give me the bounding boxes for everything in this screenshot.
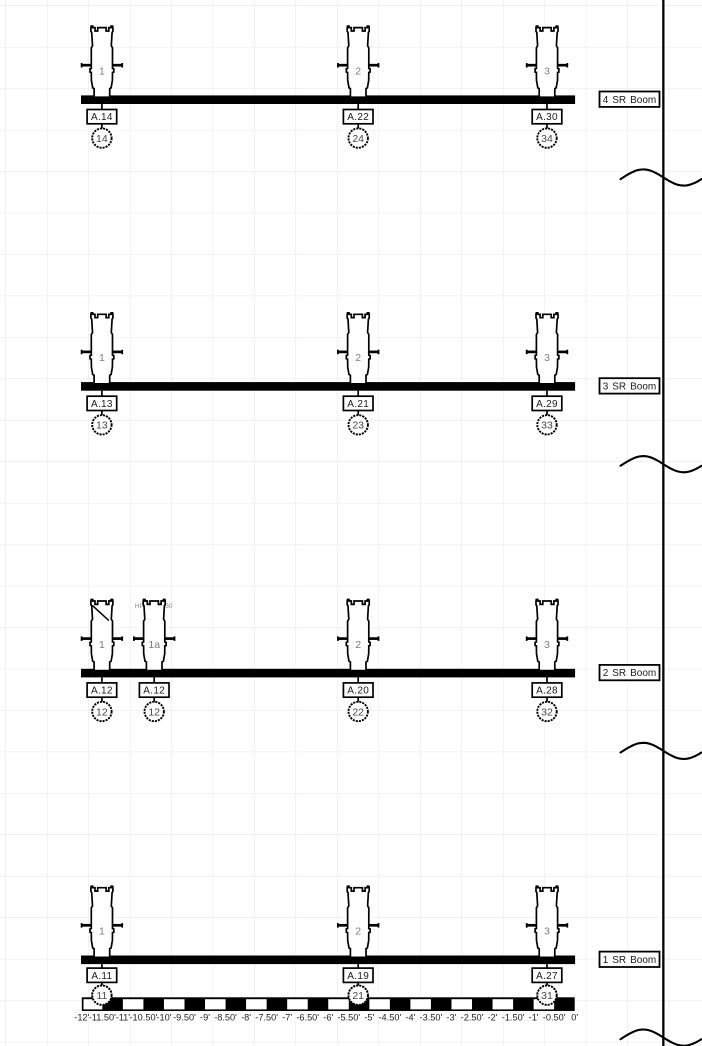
svg-text:-8': -8'	[241, 1012, 251, 1022]
svg-text:-7.50': -7.50'	[255, 1012, 278, 1022]
svg-text:-5.50': -5.50'	[337, 1012, 360, 1022]
lighting fixture 1 on 3 SR Boom	[81, 313, 123, 384]
svg-text:A.20: A.20	[347, 686, 369, 697]
svg-text:3: 3	[544, 926, 550, 938]
wire pipe to dimmer box	[546, 104, 548, 110]
channel circle 32	[537, 702, 556, 721]
wire pipe to dimmer box	[357, 964, 359, 968]
wire dimmer box to channel circle	[357, 124, 359, 138]
lighting fixture 2 on 2 SR Boom	[337, 600, 379, 671]
channel circle 11 (over ruler)	[92, 986, 111, 1005]
svg-text:14: 14	[96, 133, 108, 145]
svg-text:A.22: A.22	[347, 112, 369, 123]
svg-text:13: 13	[96, 420, 108, 432]
wire pipe to dimmer box	[101, 391, 103, 397]
svg-text:12: 12	[148, 706, 160, 718]
wire dimmer box to channel circle	[546, 411, 548, 425]
wire pipe to dimmer box	[546, 677, 548, 683]
svg-text:-4': -4'	[405, 1012, 415, 1022]
channel circle 24	[349, 128, 368, 147]
wire pipe to dimmer box	[546, 964, 548, 968]
channel circle 31 (over ruler)	[537, 986, 556, 1005]
svg-text:3: 3	[544, 66, 550, 78]
channel circle 22	[349, 702, 368, 721]
channel circle 14	[92, 128, 111, 147]
lighting fixture 3 on 2 SR Boom	[526, 600, 568, 671]
dimmer box A.19	[343, 968, 373, 982]
dimmer box A.13	[87, 396, 117, 410]
svg-text:A.12: A.12	[143, 686, 165, 697]
break line squiggle 3	[621, 743, 702, 759]
lighting fixture 3 on 3 SR Boom	[526, 313, 568, 384]
dimmer box A.30	[532, 110, 562, 124]
boom name label 4 SR Boom	[600, 92, 660, 107]
svg-text:-3': -3'	[447, 1012, 457, 1022]
wire dimmer box to channel circle	[101, 697, 103, 711]
svg-text:24: 24	[352, 133, 364, 145]
svg-text:A.21: A.21	[347, 399, 369, 410]
svg-text:12: 12	[96, 706, 108, 718]
wire dimmer box to channel circle	[101, 411, 103, 425]
wire pipe to dimmer box	[101, 677, 103, 683]
wire pipe to dimmer box	[153, 677, 155, 683]
wire dimmer box to channel circle	[101, 124, 103, 138]
lighting fixture 1a on 2 SR Boom	[133, 600, 175, 671]
wire pipe to dimmer box	[357, 677, 359, 683]
svg-text:-1.50': -1.50'	[502, 1012, 525, 1022]
svg-text:-10': -10'	[156, 1012, 171, 1022]
dimmer box A.27	[532, 968, 562, 982]
svg-text:A.14: A.14	[91, 112, 113, 123]
lighting fixture 1 on 4 SR Boom	[81, 26, 123, 97]
svg-text:32: 32	[541, 706, 553, 718]
svg-text:2: 2	[355, 639, 361, 651]
lighting fixture 2 on 1 SR Boom	[337, 886, 379, 957]
dimmer box A.11	[87, 968, 117, 982]
scale bar (checkered ruler)	[82, 997, 575, 1011]
svg-text:2 SR Boom: 2 SR Boom	[603, 668, 657, 679]
wire pipe to dimmer box	[101, 964, 103, 968]
svg-text:A.11: A.11	[91, 971, 112, 982]
svg-text:31: 31	[541, 990, 553, 1002]
boom pipe 3 SR Boom	[81, 382, 575, 391]
svg-text:-0.50': -0.50'	[543, 1012, 566, 1022]
dimmer box A.29	[532, 396, 562, 410]
boom name label 1 SR Boom	[600, 952, 660, 967]
dimmer box A.12	[87, 683, 117, 697]
channel circle 21 (over ruler)	[349, 986, 368, 1005]
svg-text:11: 11	[96, 990, 107, 1002]
svg-text:33: 33	[541, 420, 553, 432]
lighting fixture 3 on 4 SR Boom	[526, 26, 568, 97]
svg-text:A.13: A.13	[91, 399, 113, 410]
lighting fixture 2 on 3 SR Boom	[337, 313, 379, 384]
svg-text:-9.50': -9.50'	[173, 1012, 196, 1022]
dimmer box A.20	[343, 683, 373, 697]
svg-text:-2.50': -2.50'	[461, 1012, 484, 1022]
svg-text:3 SR Boom: 3 SR Boom	[603, 382, 657, 393]
svg-text:23: 23	[352, 420, 364, 432]
svg-text:1: 1	[99, 639, 105, 651]
svg-text:A.12: A.12	[91, 686, 113, 697]
svg-text:-10.50': -10.50'	[130, 1012, 158, 1022]
svg-text:-2': -2'	[488, 1012, 498, 1022]
svg-text:-6': -6'	[323, 1012, 333, 1022]
lighting fixture 1 on 2 SR Boom	[81, 600, 123, 671]
svg-text:3: 3	[544, 352, 550, 364]
svg-text:21: 21	[352, 990, 364, 1002]
wire pipe to dimmer box	[357, 104, 359, 110]
wire dimmer box to channel circle	[357, 982, 359, 995]
wire pipe to dimmer box	[357, 391, 359, 397]
svg-text:0': 0'	[571, 1012, 578, 1022]
svg-text:22: 22	[352, 706, 364, 718]
break line squiggle 4	[621, 1030, 702, 1046]
wire dimmer box to channel circle	[546, 982, 548, 995]
svg-text:1: 1	[99, 352, 105, 364]
svg-text:A.19: A.19	[347, 971, 369, 982]
svg-text:2: 2	[355, 66, 361, 78]
boom name label 3 SR Boom	[600, 378, 660, 393]
channel circle 12	[145, 702, 164, 721]
svg-text:-3.50': -3.50'	[420, 1012, 443, 1022]
channel circle 33	[537, 415, 556, 434]
svg-text:-8.50': -8.50'	[214, 1012, 237, 1022]
svg-text:2: 2	[355, 352, 361, 364]
svg-text:A.28: A.28	[536, 686, 558, 697]
boom name label 2 SR Boom	[600, 665, 660, 680]
wire dimmer box to channel circle	[546, 697, 548, 711]
svg-text:1a: 1a	[148, 639, 160, 651]
wire dimmer box to channel circle	[357, 697, 359, 711]
break line squiggle 2	[621, 456, 702, 472]
svg-text:1: 1	[99, 66, 105, 78]
svg-text:2: 2	[355, 926, 361, 938]
channel circle 12	[92, 702, 111, 721]
svg-text:1: 1	[99, 926, 105, 938]
wire dimmer box to channel circle	[101, 982, 103, 995]
svg-text:-9': -9'	[200, 1012, 210, 1022]
dimmer box A.22	[343, 110, 373, 124]
wire pipe to dimmer box	[101, 104, 103, 110]
vertical reference line (proscenium)	[662, 0, 664, 1046]
dimmer box A.28	[532, 683, 562, 697]
boom pipe 4 SR Boom	[81, 95, 575, 104]
boom pipe 2 SR Boom	[81, 669, 575, 678]
svg-text:A.29: A.29	[536, 399, 558, 410]
wire dimmer box to channel circle	[357, 411, 359, 425]
svg-text:-4.50': -4.50'	[379, 1012, 402, 1022]
svg-text:-7': -7'	[282, 1012, 292, 1022]
channel circle 13	[92, 415, 111, 434]
svg-text:-5': -5'	[364, 1012, 374, 1022]
scale labels	[74, 1012, 578, 1022]
channel circle 34	[537, 128, 556, 147]
wire dimmer box to channel circle	[153, 697, 155, 711]
svg-text:A.30: A.30	[536, 112, 558, 123]
lighting fixture 1 on 1 SR Boom	[81, 886, 123, 957]
svg-text:-12': -12'	[74, 1012, 89, 1022]
dimmer box A.21	[343, 396, 373, 410]
svg-text:4 SR Boom: 4 SR Boom	[603, 95, 657, 106]
break line squiggle 1	[621, 169, 702, 185]
lighting fixture 3 on 1 SR Boom	[526, 886, 568, 957]
channel circle 31	[537, 986, 556, 1005]
svg-text:A.27: A.27	[536, 971, 558, 982]
wire dimmer box to channel circle	[546, 124, 548, 138]
wire pipe to dimmer box	[546, 391, 548, 397]
channel circle 11	[92, 986, 111, 1005]
svg-text:-6.50': -6.50'	[296, 1012, 319, 1022]
svg-text:-11': -11'	[116, 1012, 131, 1022]
dimmer box A.12	[139, 683, 169, 697]
boom pipe 1 SR Boom	[81, 956, 575, 965]
svg-text:3: 3	[544, 639, 550, 651]
svg-text:1 SR Boom: 1 SR Boom	[603, 955, 657, 966]
svg-text:-1': -1'	[529, 1012, 539, 1022]
channel circle 23	[349, 415, 368, 434]
dimmer box A.14	[87, 110, 117, 124]
svg-text:34: 34	[541, 133, 553, 145]
lighting fixture 2 on 4 SR Boom	[337, 26, 379, 97]
svg-text:-11.50': -11.50'	[89, 1012, 116, 1022]
channel circle 21	[349, 986, 368, 1005]
